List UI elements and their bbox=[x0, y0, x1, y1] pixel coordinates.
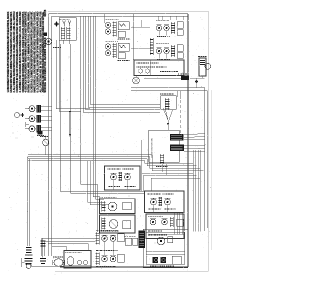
svg-text:LATCH MOTOR SW: LATCH MOTOR SW bbox=[151, 137, 154, 158]
svg-text:81015: 81015 bbox=[44, 9, 47, 16]
